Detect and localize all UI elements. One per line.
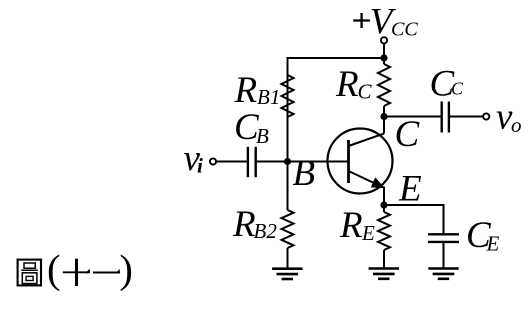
svg-text:B1: B1 <box>257 85 280 109</box>
svg-text:R: R <box>335 64 359 105</box>
svg-text:R: R <box>232 204 256 245</box>
svg-text:E: E <box>486 232 500 256</box>
svg-text:C: C <box>358 80 373 104</box>
svg-text:C: C <box>451 79 464 99</box>
svg-text:B: B <box>293 153 316 194</box>
svg-text:i: i <box>197 154 203 178</box>
svg-text:R: R <box>339 205 363 246</box>
svg-text:R: R <box>234 70 258 111</box>
svg-text:E: E <box>361 221 375 245</box>
svg-text:): ) <box>119 247 132 292</box>
svg-text:C: C <box>395 114 421 155</box>
svg-text:E: E <box>398 169 422 210</box>
svg-text:o: o <box>511 113 522 137</box>
svg-text:CC: CC <box>391 18 418 40</box>
svg-text:B: B <box>256 124 269 148</box>
svg-text:B2: B2 <box>254 219 278 243</box>
svg-text:(: ( <box>47 247 61 292</box>
